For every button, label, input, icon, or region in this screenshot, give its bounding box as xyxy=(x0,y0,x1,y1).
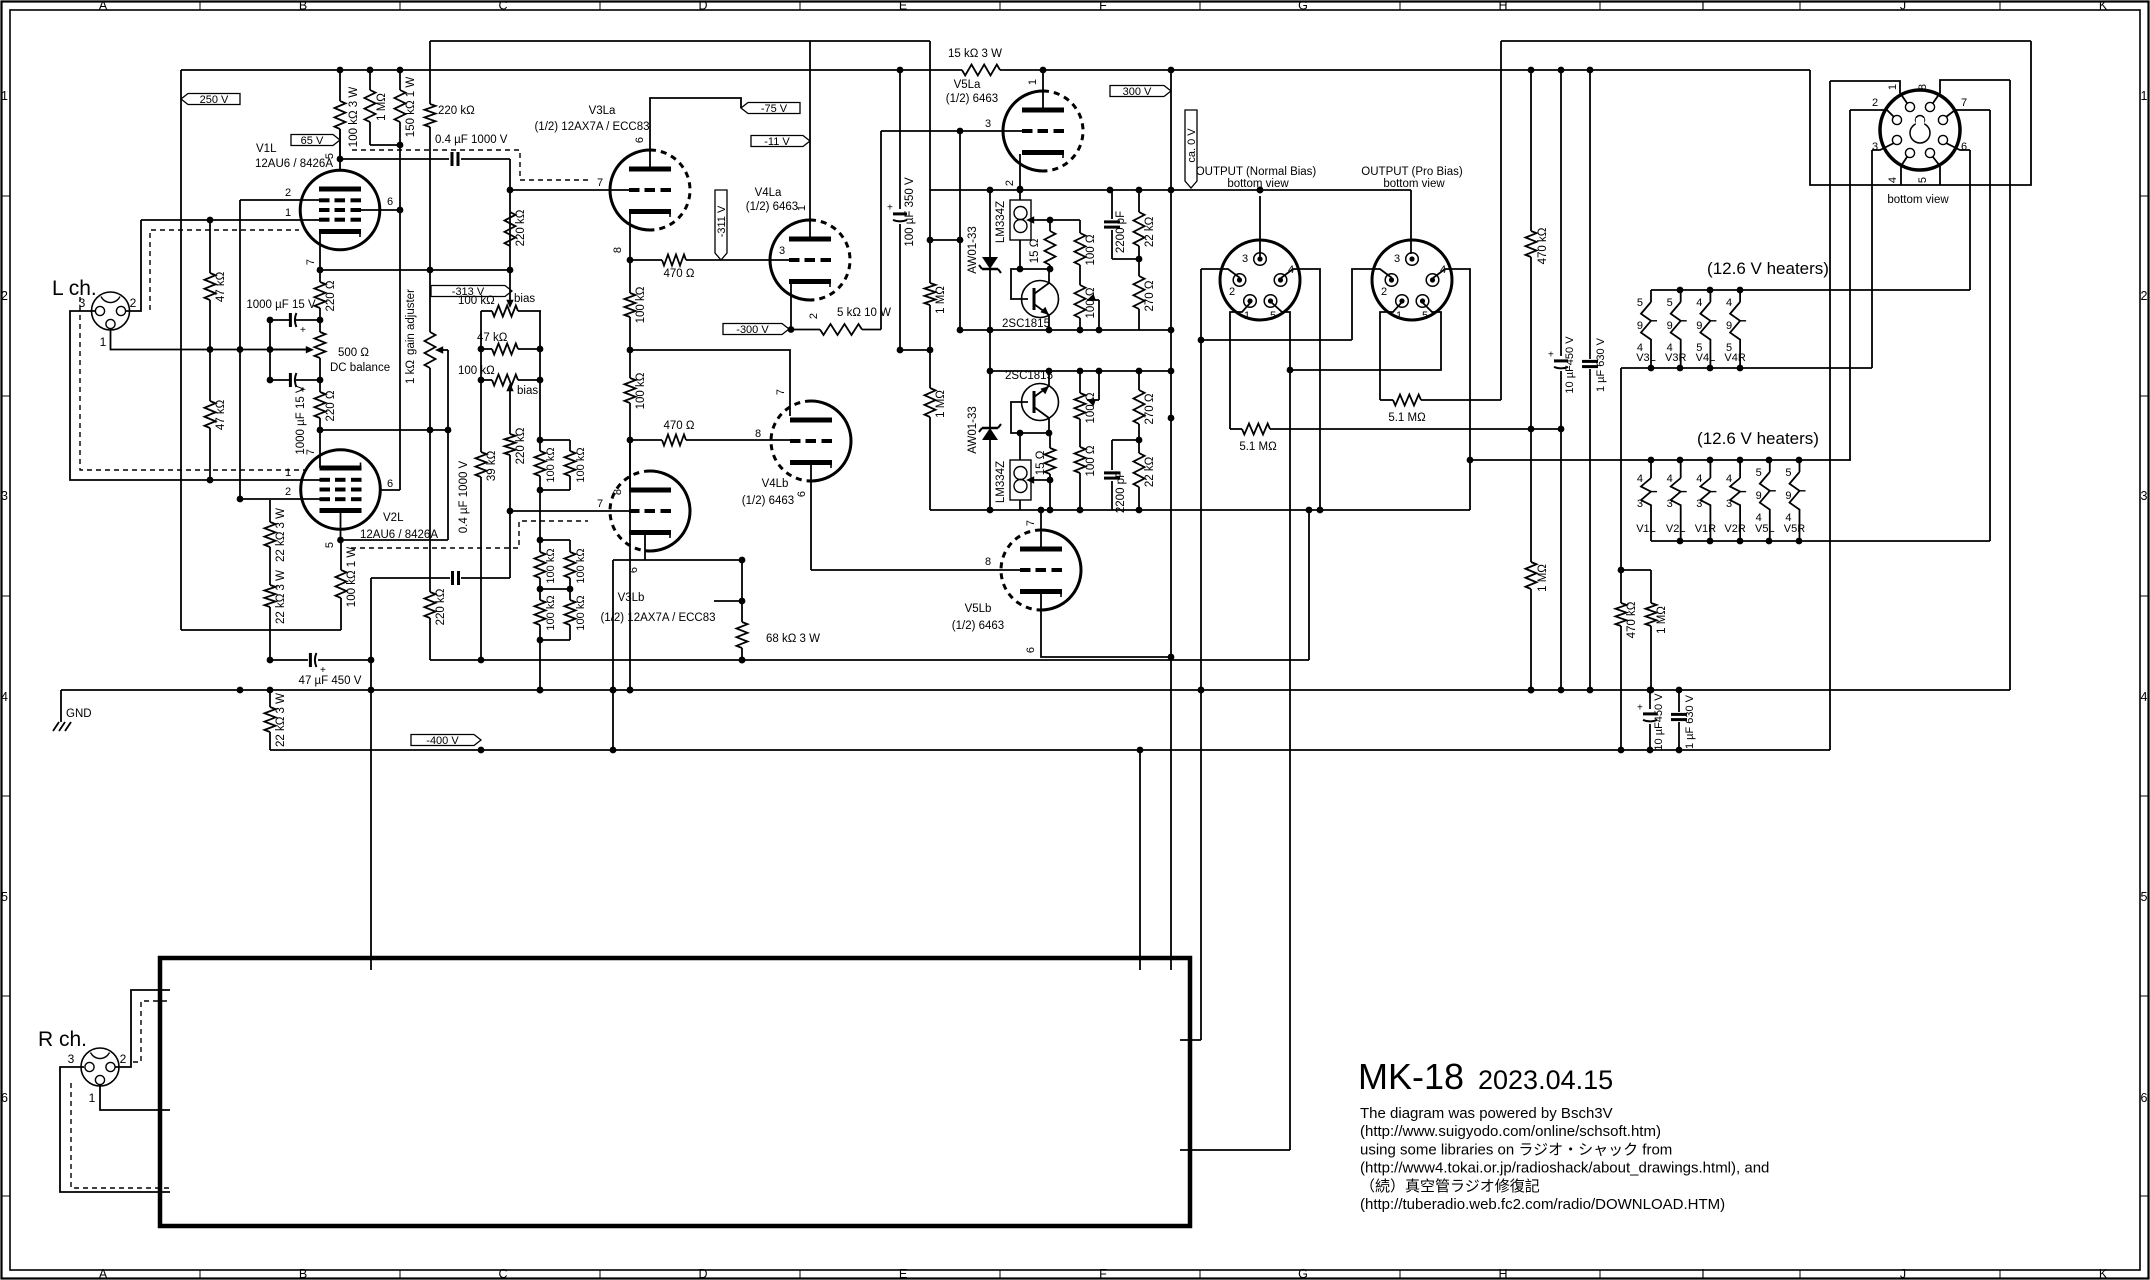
svg-text:0.4 µF 1000 V: 0.4 µF 1000 V xyxy=(458,460,470,533)
svg-text:1: 1 xyxy=(796,205,808,211)
svg-text:1 MΩ: 1 MΩ xyxy=(935,286,947,314)
svg-text:(12.6 V heaters): (12.6 V heaters) xyxy=(1707,259,1829,278)
wire x881 riser xyxy=(880,131,882,330)
svg-text:2: 2 xyxy=(808,313,820,319)
V4Lb cathode wire xyxy=(810,465,812,570)
svg-text:V2R: V2R xyxy=(1724,523,1745,535)
svg-text:LM334Z: LM334Z xyxy=(995,461,1007,503)
svg-text:2: 2 xyxy=(2141,289,2148,303)
svg-text:4: 4 xyxy=(1667,473,1673,485)
output R pin1 wire xyxy=(1380,302,1402,400)
svg-text:K: K xyxy=(2099,0,2108,13)
resistor 150 kOhm 1 W xyxy=(399,70,401,90)
svg-text:5: 5 xyxy=(1756,467,1762,479)
svg-text:220 kΩ: 220 kΩ xyxy=(435,588,447,625)
svg-text:D: D xyxy=(698,1267,707,1280)
svg-text:(1/2) 12AX7A / ECC83: (1/2) 12AX7A / ECC83 xyxy=(600,612,715,624)
V1L pin7 cathode wire xyxy=(319,233,321,270)
resistor 220 kOhm upper xyxy=(429,70,431,104)
svg-text:E: E xyxy=(899,0,907,13)
svg-text:220 kΩ: 220 kΩ xyxy=(515,209,527,246)
capacitor 10 uF 450 V right-2 xyxy=(1649,690,1651,709)
svg-text:5.1 MΩ: 5.1 MΩ xyxy=(1388,412,1426,424)
svg-text:F: F xyxy=(1099,1267,1107,1280)
shield dashed V2L input xyxy=(80,297,307,470)
socket pin8 wire xyxy=(1933,80,2010,103)
svg-text:1: 1 xyxy=(2141,89,2148,103)
gain adjuster wiper xyxy=(438,349,448,351)
bus y510 right part xyxy=(1041,509,1470,511)
capacitor 0.4 uF 1000 V lower xyxy=(371,577,450,579)
Q1 emitter lead xyxy=(1048,315,1050,330)
svg-text:9: 9 xyxy=(1756,490,1762,502)
resistor 22 kOhm 3 W chain-2 xyxy=(265,585,276,607)
resistor 470 Ohm b xyxy=(630,439,662,441)
svg-text:3: 3 xyxy=(985,118,991,130)
svg-text:1 kΩ: 1 kΩ xyxy=(405,360,417,384)
flag ca. 0 V xyxy=(1185,110,1197,188)
tube V5La xyxy=(1003,91,1043,171)
svg-text:+: + xyxy=(1548,350,1554,361)
svg-text:4: 4 xyxy=(1887,177,1899,183)
wire x1970 pin6 rail xyxy=(1969,150,1971,290)
V2L pin5 anode wire xyxy=(340,511,342,540)
svg-text:The diagram was powered by Bsc: The diagram was powered by Bsch3V xyxy=(1360,1105,1613,1122)
base jog lower xyxy=(1017,430,1024,437)
pot wiper upper xyxy=(1087,294,1096,301)
wire x1501 riser xyxy=(1500,41,1502,400)
svg-text:-75 V: -75 V xyxy=(761,103,788,115)
diode AW01-33 lower xyxy=(989,330,991,428)
resistor 100 Ohm upper-1 xyxy=(1079,220,1081,233)
svg-text:4: 4 xyxy=(1,690,8,704)
connector L ch xyxy=(92,292,130,330)
resistor 22 kOhm 3 W chain-1 xyxy=(269,500,271,522)
svg-text:4: 4 xyxy=(1696,297,1702,309)
svg-text:V5Lb: V5Lb xyxy=(965,603,992,615)
svg-text:100 kΩ 3 W: 100 kΩ 3 W xyxy=(348,87,360,148)
resistor 5.1 MOhm pro xyxy=(1380,399,1393,401)
V3La pin6 wire xyxy=(650,98,741,168)
tube V5Lb xyxy=(1041,530,1081,610)
V1L pin2 wire xyxy=(240,199,320,201)
GND bus y690 xyxy=(61,689,2010,691)
svg-text:100 µF 350 V: 100 µF 350 V xyxy=(904,177,916,247)
svg-text:270 Ω: 270 Ω xyxy=(1144,393,1156,424)
svg-text:5: 5 xyxy=(2141,890,2148,904)
svg-text:1: 1 xyxy=(1,89,8,103)
wire x1872 pin3 rail xyxy=(1871,150,1873,368)
V1L pin7 node wire y270 xyxy=(320,269,510,271)
wire x1201 into block xyxy=(1180,1039,1201,1041)
svg-text:150 kΩ 1 W: 150 kΩ 1 W xyxy=(405,77,417,138)
wire y570 to V5Lb grid xyxy=(811,569,1020,571)
resistor 1 MOhm a xyxy=(929,240,931,283)
wire x510 to V3Lb grid xyxy=(509,511,511,578)
wire 250V rail vertical x181 xyxy=(180,70,182,630)
socket pin4 wire xyxy=(1901,157,1907,185)
heater bus2 top xyxy=(1470,459,1851,461)
bus y371 xyxy=(990,370,1171,372)
wire x930 corner xyxy=(930,509,1041,511)
svg-text:K: K xyxy=(2099,1267,2108,1280)
output L pin2 wire xyxy=(1201,269,1240,278)
V3Lb cathode wire xyxy=(644,534,646,560)
socket pin holes xyxy=(1905,102,1914,111)
tube V1L xyxy=(300,170,380,250)
tube V4Lb xyxy=(811,401,851,481)
svg-text:-400 V: -400 V xyxy=(426,735,459,747)
svg-text:J: J xyxy=(1900,1267,1906,1280)
svg-text:(http://tuberadio.web.fc2.com/: (http://tuberadio.web.fc2.com/radio/DOWN… xyxy=(1360,1196,1725,1213)
resistor 100 kOhm 3 W xyxy=(339,70,341,101)
resistor 1 MOhm xyxy=(369,70,371,90)
V3Lb anode node xyxy=(627,437,634,444)
svg-text:1: 1 xyxy=(285,467,291,479)
shield dashed V3Lb input xyxy=(351,521,588,548)
svg-text:1 MΩ: 1 MΩ xyxy=(1656,606,1668,634)
svg-text:V4Lb: V4Lb xyxy=(762,478,789,490)
heater bus2 bottom xyxy=(1651,540,1990,542)
svg-text:100 Ω: 100 Ω xyxy=(1085,445,1097,476)
bus -400V y750 xyxy=(270,749,1830,751)
resistor 220 Ohm upper xyxy=(319,270,321,282)
svg-text:3: 3 xyxy=(1,489,8,503)
svg-text:J: J xyxy=(1900,0,1906,13)
capacitor 1000uF 15V lower xyxy=(296,379,320,381)
svg-text:12AU6 / 8426A: 12AU6 / 8426A xyxy=(255,158,333,170)
pot 100 Ohm upper-2 xyxy=(1079,265,1081,285)
svg-text:GND: GND xyxy=(66,708,92,720)
svg-text:0.4 µF 1000 V: 0.4 µF 1000 V xyxy=(435,134,508,146)
svg-text:B: B xyxy=(299,0,307,13)
svg-text:3: 3 xyxy=(1637,498,1643,510)
Q1 collector lead xyxy=(1048,269,1050,284)
Q2 emitter lead xyxy=(1048,371,1050,387)
V3La pin7 wire xyxy=(510,189,629,191)
svg-text:V4L: V4L xyxy=(1696,352,1716,364)
svg-text:7: 7 xyxy=(775,389,787,395)
ladder pair 1 xyxy=(540,439,570,441)
output R pin3 wire xyxy=(1410,190,1412,254)
svg-text:5: 5 xyxy=(324,153,336,159)
resistor 220 kOhm coupling xyxy=(505,212,516,246)
svg-text:1: 1 xyxy=(1027,79,1039,85)
svg-text:4: 4 xyxy=(1726,297,1732,309)
diode AW01-33 upper xyxy=(989,190,991,257)
svg-text:6: 6 xyxy=(1,1091,8,1105)
output R pin2 wire xyxy=(1352,269,1392,340)
capacitor 1000uF 15V upper xyxy=(296,319,320,321)
svg-text:47 kΩ: 47 kΩ xyxy=(215,271,227,302)
svg-text:gain adjuster: gain adjuster xyxy=(405,289,417,355)
capacitor 2200 pF lower xyxy=(1111,481,1113,510)
svg-text:15 kΩ 3 W: 15 kΩ 3 W xyxy=(948,48,1002,60)
wire y601 stub xyxy=(714,600,742,602)
svg-text:-11 V: -11 V xyxy=(764,136,790,148)
svg-text:(12.6 V heaters): (12.6 V heaters) xyxy=(1697,429,1819,448)
svg-text:DC balance: DC balance xyxy=(330,362,390,374)
flag -300 V xyxy=(723,324,789,335)
svg-text:47 kΩ: 47 kΩ xyxy=(215,399,227,430)
LM334 adjust arrow lower xyxy=(1028,479,1050,481)
svg-text:bias: bias xyxy=(517,385,538,397)
L ch pin2 wire xyxy=(126,220,141,311)
svg-text:22 kΩ 3 W: 22 kΩ 3 W xyxy=(275,508,287,562)
wire x1309 riser xyxy=(1308,510,1310,660)
svg-text:6: 6 xyxy=(634,137,646,143)
wire x1290 down to R block xyxy=(1289,370,1291,1150)
svg-text:2: 2 xyxy=(285,486,291,498)
svg-text:OUTPUT (Normal Bias): OUTPUT (Normal Bias) xyxy=(1196,166,1317,178)
transistor Q1 2SC1815 xyxy=(1022,281,1059,318)
svg-text:I: I xyxy=(1701,1267,1704,1280)
flag 65 V xyxy=(291,135,340,146)
svg-text:47 µF 450 V: 47 µF 450 V xyxy=(299,675,362,687)
svg-text:100 kΩ: 100 kΩ xyxy=(458,365,495,377)
resistor 47 kOhm bias xyxy=(492,344,518,355)
svg-text:V3Lb: V3Lb xyxy=(618,592,645,604)
svg-text:4: 4 xyxy=(1726,473,1732,485)
output R pin4 wire xyxy=(1433,269,1470,510)
capacitor 47 uF 450 V xyxy=(267,657,274,664)
svg-text:1: 1 xyxy=(285,207,291,219)
svg-text:7: 7 xyxy=(597,498,603,510)
resistor 15 kOhm 3 W xyxy=(962,65,1000,76)
svg-text:G: G xyxy=(1298,0,1308,13)
svg-text:470 kΩ: 470 kΩ xyxy=(1626,601,1638,638)
svg-text:8: 8 xyxy=(612,489,624,495)
V2L plate wire y540 xyxy=(341,539,449,541)
svg-text:(http://www4.tokai.or.jp/radio: (http://www4.tokai.or.jp/radioshack/abou… xyxy=(1360,1160,1769,1177)
svg-text:3: 3 xyxy=(79,296,86,310)
svg-text:A: A xyxy=(99,0,108,13)
wire LM334-15ohm top xyxy=(1050,219,1080,221)
capacitor 1 uF 630 V right-1 xyxy=(1589,70,1591,359)
capacitor 0.4 uF 1000 V upper xyxy=(340,158,449,160)
svg-text:8: 8 xyxy=(612,247,624,253)
resistor 100 kOhm V3Lb-chain xyxy=(629,350,631,378)
svg-text:D: D xyxy=(698,0,707,13)
V4La pin1 wire xyxy=(809,41,811,237)
svg-text:1: 1 xyxy=(1244,310,1250,322)
bias wiper lower xyxy=(506,383,513,391)
svg-text:7: 7 xyxy=(1961,97,1967,109)
wire x630 down xyxy=(629,440,631,690)
resistor 470 Ohm a xyxy=(630,259,662,261)
svg-text:（続）真空管ラジオ修復記: （続）真空管ラジオ修復記 xyxy=(1360,1177,1540,1195)
svg-text:LM334Z: LM334Z xyxy=(995,201,1007,243)
svg-text:10 µF450 V: 10 µF450 V xyxy=(1653,693,1665,751)
svg-text:9: 9 xyxy=(1785,490,1791,502)
svg-text:220 kΩ: 220 kΩ xyxy=(438,105,475,117)
svg-text:100 kΩ: 100 kΩ xyxy=(635,372,647,409)
svg-text:100 kΩ: 100 kΩ xyxy=(575,548,587,583)
svg-text:-300 V: -300 V xyxy=(736,324,769,336)
pot 100 Ohm lower-1 xyxy=(1079,371,1081,393)
wire y340 outputs xyxy=(1201,339,1352,341)
wire x430 top xyxy=(429,41,431,70)
resistor 47 kOhm lower xyxy=(209,350,211,402)
svg-text:V5L: V5L xyxy=(1755,523,1775,535)
svg-text:2SC1815: 2SC1815 xyxy=(1005,370,1053,382)
capacitor 1 uF 630 V right-2 xyxy=(1678,690,1680,712)
svg-text:2: 2 xyxy=(1381,286,1387,298)
V3La cathode wire xyxy=(629,213,631,260)
R channel block xyxy=(160,958,1190,1226)
resistor 47 kOhm upper xyxy=(209,220,211,273)
svg-text:ca. 0 V: ca. 0 V xyxy=(1186,128,1198,163)
svg-text:5: 5 xyxy=(1637,297,1643,309)
svg-text:7: 7 xyxy=(305,259,317,265)
svg-text:2: 2 xyxy=(1,289,8,303)
V1L pin5 wire xyxy=(339,129,341,170)
svg-text:22 kΩ: 22 kΩ xyxy=(1144,216,1156,247)
svg-text:5: 5 xyxy=(1422,310,1428,322)
svg-text:15 Ω: 15 Ω xyxy=(1035,450,1047,475)
resistor 68 kOhm 3 W xyxy=(741,560,743,601)
V3Lb anode lead xyxy=(629,440,631,490)
wire x2010 pin8 rail xyxy=(2009,80,2011,690)
svg-text:V2L: V2L xyxy=(383,512,404,524)
output L pin1 wire xyxy=(1230,302,1251,429)
svg-text:1 µF 630 V: 1 µF 630 V xyxy=(1684,694,1696,749)
svg-text:100 kΩ: 100 kΩ xyxy=(575,595,587,630)
capacitor 100 uF 350 V xyxy=(899,70,901,209)
wire top line y41 left xyxy=(430,40,930,42)
svg-text:C: C xyxy=(498,0,507,13)
V5La pin3 wire xyxy=(881,130,1022,132)
wire x240 V1L pin2 to V2L xyxy=(239,200,241,499)
wire y370 between sockets xyxy=(1290,302,1441,370)
svg-text:2: 2 xyxy=(285,187,291,199)
svg-text:6: 6 xyxy=(1961,141,1967,153)
R ch pin3 wire xyxy=(60,1067,170,1192)
svg-text:V3La: V3La xyxy=(589,105,616,117)
svg-text:22 kΩ 3 W: 22 kΩ 3 W xyxy=(275,570,287,624)
svg-text:4: 4 xyxy=(1637,473,1643,485)
socket pin5 wire xyxy=(1933,157,1940,185)
svg-text:100 Ω: 100 Ω xyxy=(1085,287,1097,318)
svg-text:R ch.: R ch. xyxy=(38,1028,87,1051)
wire x1171 rail xyxy=(1170,70,1172,970)
svg-text:F: F xyxy=(1099,0,1107,13)
wire x960 bias xyxy=(959,131,961,330)
svg-text:2200 pF: 2200 pF xyxy=(1115,211,1127,253)
svg-text:3: 3 xyxy=(68,1052,75,1066)
LM334Z lower xyxy=(1010,460,1031,500)
svg-text:5: 5 xyxy=(1270,310,1276,322)
capacitor 2200 pF upper xyxy=(1111,190,1113,219)
svg-text:A: A xyxy=(99,1267,108,1280)
R ch pin1 wire xyxy=(100,1085,170,1110)
svg-text:15 Ω: 15 Ω xyxy=(1029,238,1041,263)
wire y630 xyxy=(181,629,341,631)
svg-text:68 kΩ 3 W: 68 kΩ 3 W xyxy=(766,633,820,645)
socket OUTPUT Normal Bias xyxy=(1220,240,1300,320)
pot 500 Ohm DC balance xyxy=(315,332,326,358)
svg-text:470 Ω: 470 Ω xyxy=(664,268,695,280)
wire x1290 into block xyxy=(1180,1149,1290,1151)
resistor 15 Ohm upper xyxy=(1049,220,1051,231)
wire x1830 pin1 rail xyxy=(1829,81,1831,750)
L ch pin1 wire xyxy=(111,329,311,350)
svg-text:470 kΩ: 470 kΩ xyxy=(1537,227,1549,264)
svg-text:6: 6 xyxy=(1025,647,1037,653)
ladder rail x540 xyxy=(539,311,541,440)
svg-text:bottom view: bottom view xyxy=(1887,194,1949,206)
V2L pin1 wire xyxy=(300,479,301,481)
V5Lb pin7 wire xyxy=(1040,510,1042,549)
svg-text:2: 2 xyxy=(1004,180,1016,186)
tube V3La xyxy=(610,150,650,230)
flag 250 V xyxy=(181,94,240,105)
svg-text:G: G xyxy=(1298,1267,1308,1280)
svg-text:6: 6 xyxy=(387,196,393,208)
pot wiper lower xyxy=(1087,399,1096,406)
V5La pin1 wire xyxy=(1042,70,1044,110)
svg-text:(1/2) 6463: (1/2) 6463 xyxy=(746,201,798,213)
socket pin2 wire xyxy=(1850,110,1894,117)
svg-text:100 kΩ: 100 kΩ xyxy=(545,548,557,583)
svg-text:8: 8 xyxy=(755,428,761,440)
R ch shield dashed lower xyxy=(71,1083,170,1188)
svg-text:MK-18: MK-18 xyxy=(1358,1056,1464,1097)
svg-text:9: 9 xyxy=(1726,320,1732,332)
svg-text:4: 4 xyxy=(1696,473,1702,485)
svg-text:7: 7 xyxy=(305,449,317,455)
svg-text:2023.04.15: 2023.04.15 xyxy=(1478,1065,1613,1095)
resistor 220 kOhm bias tap xyxy=(505,434,516,455)
wire y240 xyxy=(930,239,960,241)
V1L pin6 wire xyxy=(361,209,400,211)
resistor 470 kOhm right xyxy=(1530,70,1532,231)
flag -11 V xyxy=(751,136,810,147)
svg-text:3: 3 xyxy=(2141,489,2148,503)
svg-text:H: H xyxy=(1498,1267,1507,1280)
svg-text:1 µF 630 V: 1 µF 630 V xyxy=(1595,337,1607,392)
output L pin5 wire xyxy=(1271,302,1290,370)
svg-text:65 V: 65 V xyxy=(301,135,324,147)
svg-text:V3L: V3L xyxy=(1636,352,1656,364)
flag -400 V xyxy=(411,735,481,746)
svg-text:(1/2) 6463: (1/2) 6463 xyxy=(946,93,998,105)
socket pin1 wire xyxy=(1830,81,1907,103)
ladder mid xyxy=(539,490,541,540)
resistor 22 kOhm upper xyxy=(1138,190,1140,212)
svg-text:(http://www.suigyodo.com/onlin: (http://www.suigyodo.com/online/schsoft.… xyxy=(1360,1123,1661,1140)
svg-text:3: 3 xyxy=(1667,498,1673,510)
svg-text:220 Ω: 220 Ω xyxy=(325,280,337,311)
socket pin3 wire xyxy=(1872,143,1894,150)
svg-text:100 kΩ: 100 kΩ xyxy=(545,595,557,630)
svg-text:100 kΩ: 100 kΩ xyxy=(545,447,557,482)
svg-text:bias: bias xyxy=(514,293,535,305)
wire lineB y660 xyxy=(430,659,1309,661)
V2L pin7 cathode wire xyxy=(319,430,321,468)
resistor 5 kOhm 10 W xyxy=(791,329,820,331)
wire x400 V1L pin6 rail xyxy=(399,122,401,490)
svg-text:V3R: V3R xyxy=(1665,352,1686,364)
wire x1990 pin7 rail xyxy=(1989,110,1991,541)
svg-text:V5R: V5R xyxy=(1784,523,1805,535)
bus y190 xyxy=(930,189,1411,191)
wire x613 down xyxy=(612,560,614,750)
svg-text:100 Ω: 100 Ω xyxy=(1085,234,1097,265)
flag 300 V xyxy=(1110,86,1171,97)
V5Lb cathode wire xyxy=(1041,593,1171,657)
socket 9-pin tube xyxy=(1880,90,1960,170)
